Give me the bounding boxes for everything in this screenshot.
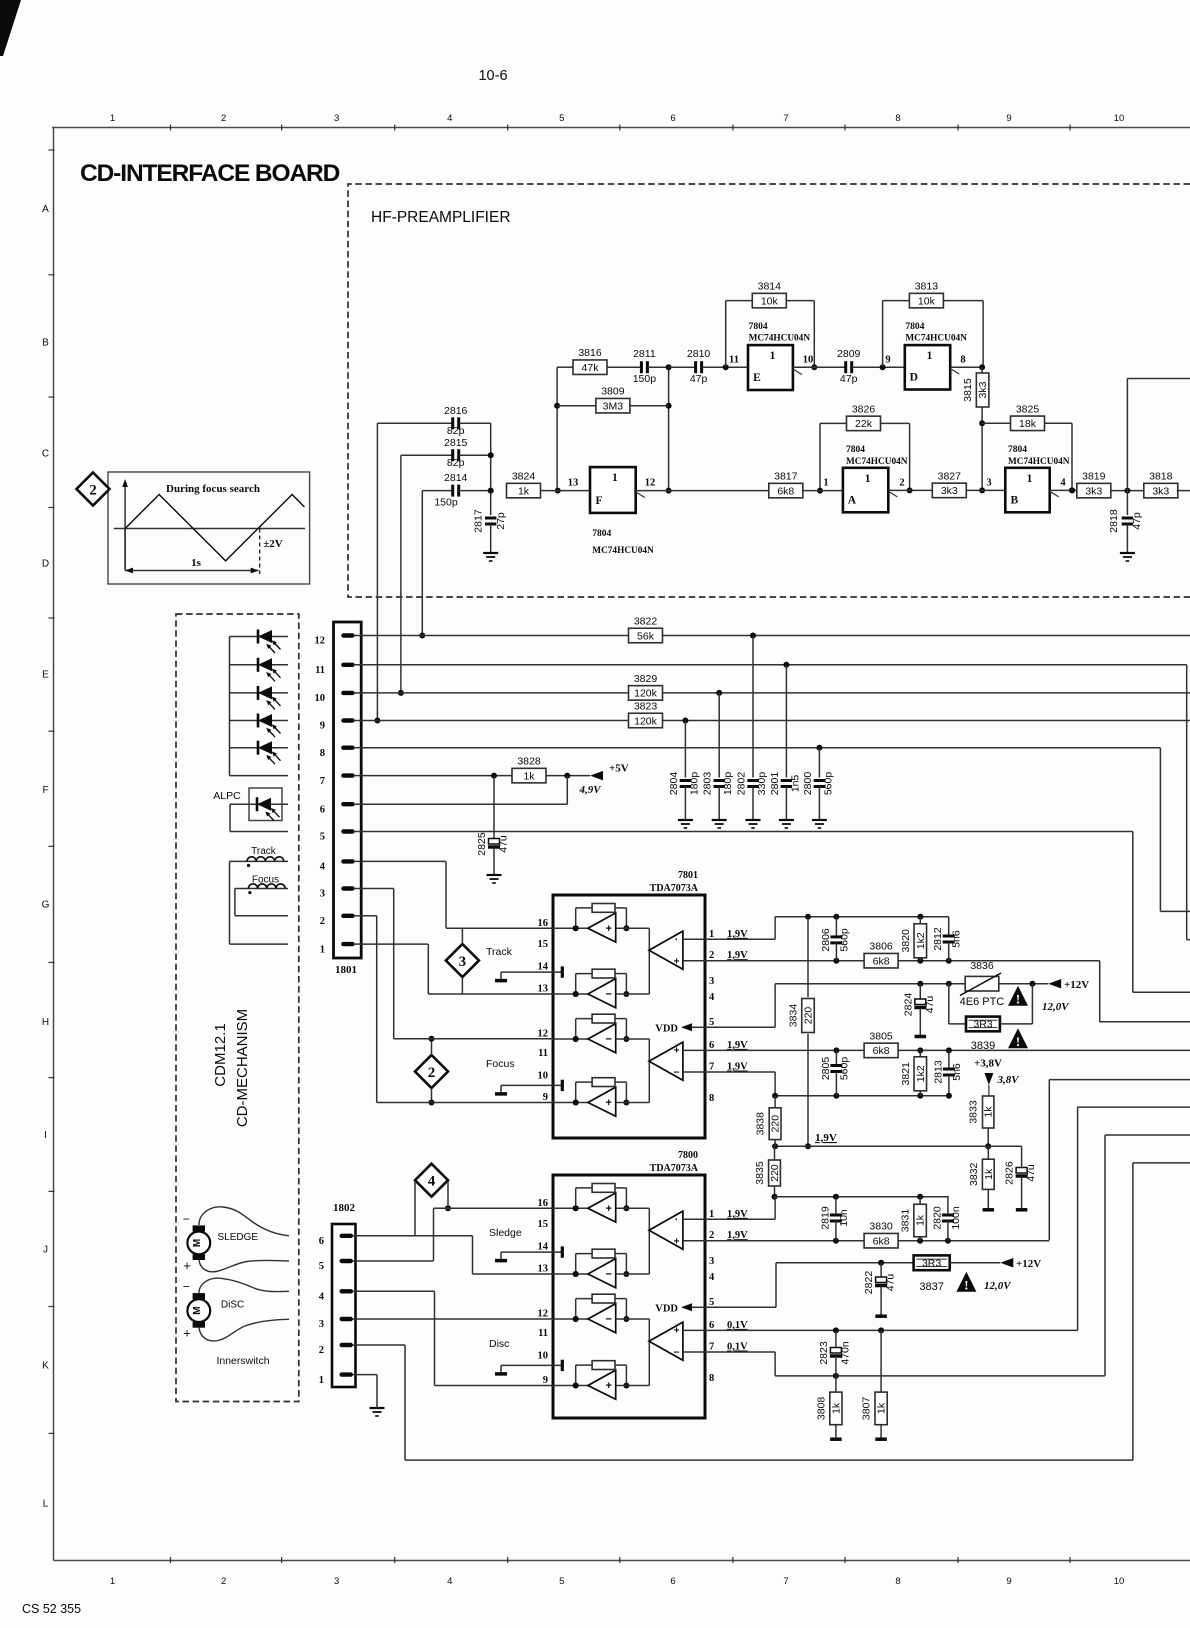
- svg-text:MC74HCU04N: MC74HCU04N: [1008, 457, 1070, 467]
- svg-text:2813: 2813: [932, 1060, 944, 1084]
- focus coil polarity dot: [248, 891, 251, 894]
- inset box during-focus-search: [108, 472, 310, 584]
- resistor 3834 220: [788, 917, 815, 1149]
- inset dashed measure line: [259, 529, 261, 575]
- connector 1801 pin 8 number: [320, 748, 325, 759]
- connector 1802 pin 1 number: [319, 1375, 324, 1386]
- svg-text:120k: 120k: [634, 688, 658, 700]
- svg-text:7804: 7804: [749, 322, 768, 332]
- svg-text:3828: 3828: [517, 756, 541, 768]
- svg-text:47u: 47u: [1025, 1164, 1037, 1182]
- svg-text:3827: 3827: [938, 470, 962, 482]
- svg-text:56k: 56k: [637, 630, 655, 642]
- 7800 pin6 wire (internal): [683, 1329, 705, 1331]
- svg-text:1: 1: [709, 929, 714, 940]
- ALPC return wire: [230, 804, 288, 831]
- connector 1802 pin 2 number: [319, 1345, 324, 1356]
- svg-text:E: E: [42, 669, 49, 680]
- 7800 pin16 input wire: [553, 1205, 588, 1211]
- 7800 pin10 ground wire: [501, 1360, 564, 1373]
- capacitor 2826 47u: [1004, 1146, 1038, 1208]
- 7801 pin14 ground wire: [501, 966, 564, 979]
- photodiode common bus wire: [229, 637, 231, 776]
- 7800 small amp - (pin12): [588, 1304, 616, 1333]
- svg-text:7: 7: [320, 776, 325, 787]
- wire pin11 edge jog: [1187, 665, 1190, 940]
- wire HF output jog to edge: [1127, 379, 1190, 491]
- svg-text:0,1V: 0,1V: [727, 1320, 748, 1331]
- svg-text:14: 14: [538, 1242, 549, 1253]
- svg-text:+12V: +12V: [1016, 1258, 1041, 1270]
- svg-text:1k: 1k: [876, 1402, 888, 1414]
- capacitor 2803 180p: [702, 693, 735, 820]
- wire gate F out: [636, 490, 769, 492]
- svg-text:180p: 180p: [722, 772, 734, 796]
- svg-text:1k2: 1k2: [915, 1065, 927, 1082]
- power +12V arrow (7801): [1048, 979, 1089, 991]
- capacitor 2809 47p: [837, 348, 905, 385]
- capacitor 2804 180p: [668, 721, 701, 821]
- svg-text:8: 8: [895, 1576, 900, 1587]
- 7800 amp2 output wire: [616, 1273, 650, 1275]
- photodiode D3 wire: [230, 692, 289, 694]
- wire 7801 pin12 line: [394, 1038, 553, 1040]
- svg-text:1,9V: 1,9V: [727, 1062, 748, 1073]
- op-amp gate E 7804: [748, 345, 802, 390]
- svg-text:2: 2: [320, 916, 325, 927]
- capacitor 2812 5n6: [932, 917, 963, 961]
- connector 1801 pin 9 number: [320, 721, 325, 732]
- track coil return wire: [230, 861, 289, 944]
- wire 1802 pin5 to 7800 pin16: [356, 1208, 554, 1261]
- 7800 amp3 output wire: [616, 1319, 650, 1386]
- resistor 3817 6k8: [769, 471, 843, 498]
- label 12,0V (7801): [1042, 1001, 1070, 1013]
- svg-text:−: −: [605, 1314, 611, 1326]
- svg-text:1802: 1802: [333, 1202, 356, 1214]
- 7800 feedback resistor (pin9 amp): [573, 1361, 630, 1389]
- svg-text:TDA7073A: TDA7073A: [650, 1163, 699, 1174]
- svg-text:3824: 3824: [512, 471, 536, 483]
- 7801 pin 3 label (right): [709, 976, 714, 987]
- svg-text:D: D: [910, 372, 918, 384]
- svg-text:2804: 2804: [668, 772, 680, 796]
- svg-text:4,9V: 4,9V: [578, 784, 602, 796]
- page number 10-6: [478, 68, 507, 84]
- svg-text:3: 3: [334, 1576, 339, 1587]
- wire pin4 to amp pin16: [361, 861, 446, 927]
- svg-text:8: 8: [320, 748, 325, 759]
- svg-text:4: 4: [709, 992, 715, 1003]
- IC 7801 TDA7073A body: [553, 895, 705, 1138]
- svg-text:A: A: [42, 204, 49, 215]
- capacitor 2822 47u: [863, 1263, 897, 1315]
- 7801 pin16 input wire: [553, 925, 588, 931]
- 7800 feedback resistor (pin13 amp): [573, 1249, 630, 1277]
- svg-text:HF-PREAMPLIFIER: HF-PREAMPLIFIER: [371, 209, 511, 226]
- svg-text:150p: 150p: [633, 373, 657, 385]
- wire 7800 VDD jog: [705, 1260, 914, 1308]
- 7801 amp3 output wire: [616, 1039, 650, 1103]
- svg-text:12: 12: [645, 478, 656, 489]
- motor M2 DISC: [183, 1280, 210, 1341]
- 7801 small amp - (pin12): [588, 1024, 616, 1053]
- label ALPC: [213, 790, 241, 802]
- capacitor 2800 560p: [802, 748, 835, 820]
- svg-text:470n: 470n: [839, 1341, 851, 1365]
- label TDA7073A (7801): [650, 883, 699, 894]
- resistor 3807 1k: [861, 1330, 888, 1437]
- ground (2802): [746, 820, 761, 828]
- svg-text:1,9V: 1,9V: [815, 1132, 837, 1144]
- resistor 3838 220: [755, 1096, 782, 1146]
- svg-text:2: 2: [89, 483, 97, 499]
- wire 7801 VDD jog: [705, 981, 965, 1028]
- ground (2818): [1120, 553, 1135, 561]
- ground (7801 pin14): [495, 979, 507, 983]
- svg-text:5: 5: [559, 1576, 564, 1587]
- svg-text:2805: 2805: [820, 1057, 832, 1081]
- power +5V arrow: [590, 763, 629, 781]
- svg-text:9: 9: [543, 1092, 548, 1103]
- resistor 3822 56k: [629, 616, 663, 643]
- resistor 3808 1k: [815, 1376, 842, 1438]
- pin 2 label (gate A out): [899, 478, 904, 489]
- connector 1801 pin 4 number: [320, 862, 326, 873]
- flag diamond 3 (Track): [446, 944, 479, 977]
- wire pin7 net: [361, 773, 512, 779]
- svg-text:5: 5: [319, 1261, 324, 1272]
- 7801 feedback resistor (pin13 amp): [573, 969, 630, 997]
- wire 7800 pin2 line: [705, 1238, 1049, 1244]
- svg-text:+: +: [674, 1237, 680, 1248]
- 7801 pin2 wire (internal): [683, 960, 705, 962]
- photodiode D1: [258, 630, 281, 654]
- wire pin5 edge jog: [1133, 832, 1190, 993]
- svg-text:2809: 2809: [837, 348, 861, 360]
- svg-text:1: 1: [927, 350, 933, 362]
- 7800 amp1 output wire: [616, 1208, 650, 1274]
- capacitor 2806 560p: [820, 917, 851, 961]
- svg-text:2825: 2825: [476, 832, 488, 856]
- connector 1802 pin 5 contact: [340, 1259, 358, 1263]
- svg-text:180p: 180p: [688, 772, 700, 796]
- connector 1802 pin 4 contact: [340, 1289, 358, 1293]
- connector 1801 pin 3 number: [320, 889, 325, 900]
- svg-text:3k3: 3k3: [977, 381, 989, 398]
- svg-text:2817: 2817: [473, 509, 485, 533]
- svg-text:1k: 1k: [915, 1214, 927, 1226]
- svg-text:9: 9: [1006, 113, 1011, 124]
- svg-text:L: L: [43, 1499, 49, 1510]
- svg-text:3,8V: 3,8V: [997, 1074, 1021, 1086]
- svg-text:10k: 10k: [918, 295, 936, 307]
- svg-text:120k: 120k: [634, 715, 658, 727]
- 7801 pin9 input wire: [553, 1100, 588, 1106]
- svg-text:15: 15: [538, 939, 549, 950]
- capacitor 2805 560p: [820, 1050, 851, 1095]
- svg-text:15: 15: [538, 1219, 549, 1230]
- connector 1801 pin 4 contact: [341, 859, 363, 863]
- 7800 pin 7 voltage 0,1V: [727, 1342, 748, 1353]
- capacitor 2810 47p: [687, 348, 748, 385]
- wire 1802 pin1 to ground: [356, 1375, 378, 1408]
- label 7800: [678, 1150, 698, 1161]
- 7800 pin 2 label (right): [709, 1230, 714, 1241]
- photodiode D3: [258, 686, 281, 710]
- svg-text:M: M: [192, 1306, 203, 1314]
- svg-text:A: A: [848, 494, 857, 506]
- svg-text:220: 220: [770, 1115, 782, 1133]
- svg-text:10k: 10k: [761, 295, 779, 307]
- resistor 3827 3k3: [932, 470, 1005, 497]
- 7801 small amp + (pin16): [588, 913, 616, 942]
- svg-text:1: 1: [612, 472, 618, 484]
- wire 7801 pin2 edge jog: [1100, 961, 1190, 1022]
- svg-text:F: F: [42, 785, 48, 796]
- resistor 3830 6k8: [864, 1221, 898, 1248]
- label DISC: [221, 1300, 244, 1311]
- wire 7801 pin13 line: [428, 993, 553, 995]
- svg-text:4: 4: [447, 1576, 452, 1587]
- pin 13 label: [568, 478, 579, 489]
- track coil wire: [230, 860, 289, 862]
- svg-text:1: 1: [110, 1576, 115, 1587]
- connector 1801 pin 11 number: [315, 665, 325, 676]
- svg-text:10-6: 10-6: [478, 68, 507, 84]
- wire 2814 to pin 12: [419, 491, 425, 639]
- pin 1 label (gate A): [823, 478, 828, 489]
- sledge motor wire -: [199, 1260, 289, 1272]
- label 1,9V (rail): [815, 1132, 837, 1144]
- 7801 pin 8 label (right): [709, 1093, 714, 1104]
- capacitor 2811 150p: [633, 348, 669, 385]
- ALPC laser diode wire: [230, 803, 288, 805]
- svg-text:J: J: [43, 1245, 48, 1256]
- svg-text:+: +: [183, 1258, 191, 1273]
- resistor 3828 1k: [512, 756, 590, 783]
- ground (3808): [830, 1437, 842, 1441]
- svg-text:!: !: [1016, 992, 1020, 1007]
- svg-text:2818: 2818: [1108, 509, 1120, 533]
- svg-text:1,9V: 1,9V: [727, 1040, 748, 1051]
- svg-text:2810: 2810: [687, 348, 711, 360]
- 7800 amp4 output wire: [616, 1385, 650, 1387]
- svg-text:2814: 2814: [444, 472, 468, 484]
- svg-text:18k: 18k: [1019, 418, 1037, 430]
- label 1802: [333, 1202, 356, 1214]
- wire 1802 pin4 to 7800 pin9: [356, 1291, 554, 1385]
- ground (7801 pin10): [495, 1092, 507, 1096]
- wire 7801 pin2 line: [705, 958, 1100, 964]
- connector 1802 pin 3 number: [319, 1319, 324, 1330]
- wire 7801 pin1 jog: [705, 914, 949, 940]
- label Sledge: [489, 1227, 522, 1239]
- 7800 feedback resistor (pin12 amp): [573, 1294, 630, 1322]
- svg-text:2826: 2826: [1004, 1161, 1016, 1185]
- svg-text:3819: 3819: [1082, 471, 1106, 483]
- label Focus: [252, 875, 279, 886]
- bottom ruler grid numbers 1-10: [110, 1557, 1124, 1587]
- svg-text:VDD: VDD: [655, 1303, 678, 1314]
- capacitor 2813 5n6: [932, 1050, 963, 1098]
- svg-text:2: 2: [319, 1345, 324, 1356]
- svg-text:7804: 7804: [905, 322, 924, 332]
- svg-text:1: 1: [1027, 473, 1033, 485]
- page corner scan mark: [0, 0, 21, 56]
- wire pin8 edge jog: [1160, 748, 1190, 912]
- svg-text:4: 4: [447, 113, 452, 124]
- 7801 pin 4 label (right): [709, 992, 715, 1003]
- svg-text:4: 4: [709, 1272, 715, 1283]
- svg-text:Track: Track: [486, 946, 513, 958]
- svg-text:330p: 330p: [756, 772, 768, 796]
- svg-text:ALPC: ALPC: [213, 790, 241, 802]
- 7800 pin 10 label: [538, 1350, 549, 1361]
- ground (2804): [678, 820, 693, 828]
- drawing number CS 52 355: [22, 1602, 81, 1616]
- svg-text:1k: 1k: [830, 1402, 842, 1414]
- svg-text:Disc: Disc: [489, 1338, 509, 1350]
- 7801 pin 13 label: [538, 984, 549, 995]
- focus coil return wire: [235, 889, 288, 916]
- svg-text:82p: 82p: [447, 425, 465, 437]
- 7801 pin 6 voltage 1,9V: [727, 1040, 748, 1051]
- wire 2816 to pin 9: [374, 423, 380, 723]
- svg-text:+3,8V: +3,8V: [974, 1058, 1002, 1070]
- svg-text:2820: 2820: [931, 1206, 943, 1230]
- svg-text:11: 11: [729, 355, 739, 366]
- 7801 pin12 input wire: [553, 1036, 588, 1042]
- wire to 2810: [669, 366, 696, 368]
- 7801 feedback resistor (pin16 amp): [573, 904, 630, 932]
- wire 7800 pin6 line: [705, 1327, 1078, 1333]
- 7800 pin 2 voltage 1,9V: [727, 1230, 748, 1241]
- svg-text:I: I: [44, 1130, 47, 1141]
- label Focus (diamond 2): [486, 1058, 515, 1070]
- op-amp gate A 7804: [843, 468, 897, 513]
- svg-text:3831: 3831: [900, 1209, 912, 1233]
- resistor 3805 6k8: [864, 1030, 898, 1057]
- wire 7801 pin9 line: [377, 1102, 553, 1104]
- svg-text:3: 3: [709, 976, 714, 987]
- pin 10 label: [803, 355, 814, 366]
- 7801 pin 14 label: [538, 962, 549, 973]
- label SLEDGE: [218, 1232, 259, 1243]
- 7800 pin9 input wire: [553, 1383, 588, 1389]
- inset label ±2V: [263, 538, 283, 550]
- svg-text:B: B: [1010, 494, 1018, 506]
- svg-text:During focus search: During focus search: [166, 483, 260, 495]
- wire gate B out: [1050, 487, 1078, 493]
- svg-text:47p: 47p: [1131, 512, 1143, 530]
- svg-text:G: G: [42, 900, 50, 911]
- svg-text:47k: 47k: [582, 362, 600, 374]
- 7800 pin 6 label (right): [709, 1320, 714, 1331]
- capacitor 2823 470n: [818, 1330, 852, 1376]
- 7801 amp4 output wire: [616, 1102, 650, 1104]
- svg-text:−: −: [605, 989, 611, 1001]
- svg-text:3832: 3832: [968, 1162, 980, 1186]
- svg-text:2: 2: [899, 478, 904, 489]
- svg-text:+: +: [605, 1203, 611, 1215]
- label 3837: [919, 1281, 943, 1293]
- svg-text:+12V: +12V: [1064, 979, 1089, 991]
- 7801 pin7 wire (internal): [683, 1071, 705, 1073]
- wire pin3 to amp pin12: [361, 889, 394, 1039]
- svg-text:+5V: +5V: [609, 763, 629, 775]
- svg-text:3805: 3805: [869, 1030, 893, 1042]
- svg-text:3814: 3814: [758, 281, 782, 293]
- resistor 3815 3k3: [962, 367, 989, 493]
- resistor 3820 1k2: [900, 917, 927, 961]
- svg-text:3: 3: [334, 113, 339, 124]
- svg-text:6k8: 6k8: [873, 1236, 890, 1248]
- 7800 pin 4 label (right): [709, 1272, 715, 1283]
- svg-text:1s: 1s: [191, 557, 202, 569]
- svg-text:M: M: [192, 1239, 203, 1247]
- svg-text:CS 52 355: CS 52 355: [22, 1602, 81, 1616]
- ground (3807): [875, 1437, 887, 1441]
- svg-text:1n5: 1n5: [789, 775, 801, 793]
- label 7804 (B): [1008, 445, 1027, 455]
- svg-text:DiSC: DiSC: [221, 1300, 244, 1311]
- svg-text:1: 1: [865, 473, 871, 485]
- 7801 pin13 input wire: [553, 991, 588, 997]
- photodiode D4 wire: [230, 720, 289, 722]
- svg-text:3R3: 3R3: [922, 1258, 941, 1270]
- svg-text:9: 9: [1006, 1576, 1011, 1587]
- wire pin5 net: [361, 831, 1133, 833]
- connector 1802 pin 3 contact: [340, 1317, 358, 1321]
- 7801 pin1 wire (internal): [683, 938, 705, 940]
- photodiode D2: [258, 658, 281, 682]
- svg-text:+: +: [674, 1046, 680, 1057]
- resistor 3825 18k feedback: [982, 403, 1075, 493]
- 7800 pin 8 label (right): [709, 1373, 714, 1384]
- pin 9 label: [885, 355, 890, 366]
- connector 1801 pin 7 contact: [341, 773, 363, 777]
- connector 1801 pin 7 number: [320, 776, 325, 787]
- svg-text:47u: 47u: [924, 996, 936, 1014]
- svg-text:4: 4: [320, 862, 326, 873]
- 7801 pin 2 voltage 1,9V: [727, 950, 748, 961]
- svg-text:8: 8: [709, 1093, 714, 1104]
- svg-text:3k3: 3k3: [941, 485, 958, 497]
- svg-text:Track: Track: [251, 846, 277, 857]
- warning triangle (3839): [1008, 1028, 1028, 1049]
- svg-text:11: 11: [538, 1048, 548, 1059]
- inset label 1s: [191, 557, 202, 569]
- svg-text:1k: 1k: [983, 1168, 995, 1180]
- inset triangle waveform: [125, 495, 304, 561]
- ground (7800 pin14): [495, 1259, 507, 1263]
- label 7804 (E): [749, 322, 768, 332]
- svg-text:10: 10: [538, 1350, 549, 1361]
- svg-text:3807: 3807: [861, 1397, 873, 1421]
- top ruler grid numbers 1-10: [110, 113, 1124, 131]
- svg-text:7804: 7804: [1008, 445, 1027, 455]
- svg-text:Innerswitch: Innerswitch: [216, 1355, 269, 1367]
- svg-text:14: 14: [538, 962, 549, 973]
- svg-text:3837: 3837: [919, 1281, 943, 1293]
- wire 7800 pin1 jog: [705, 1194, 949, 1220]
- resistor 3818 3k3: [1144, 471, 1190, 498]
- connector 1801 pin 12 number: [315, 636, 326, 647]
- 7800 pin 14 label: [538, 1242, 549, 1253]
- ground (7800 pin10): [495, 1372, 507, 1376]
- wire pin12 net: [361, 633, 1190, 639]
